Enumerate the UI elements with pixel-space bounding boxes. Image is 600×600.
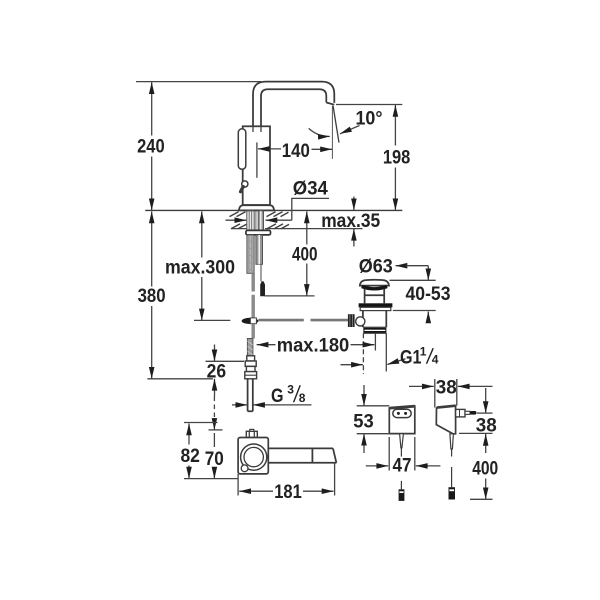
dim 53 bbox=[353, 385, 389, 453]
power supply side view bbox=[436, 406, 476, 434]
supply hose lower bbox=[251, 295, 254, 318]
dim max.35 bbox=[321, 197, 380, 247]
braided section above check valve bbox=[247, 339, 253, 357]
leader from 10 deg to stream bbox=[340, 126, 360, 134]
countertop line bbox=[145, 209, 402, 211]
G1 1/4 diameter arrows bbox=[341, 359, 406, 365]
check valve G3/8 bbox=[245, 356, 257, 379]
drain body bbox=[363, 311, 386, 328]
counter hatching left bbox=[230, 212, 247, 229]
dim 47 bbox=[366, 437, 441, 477]
svg-text:max.180: max.180 bbox=[277, 334, 350, 356]
braided shank below locknut bbox=[247, 235, 254, 273]
outlet pipe from wall box bbox=[268, 448, 336, 462]
counter slab bottom line bbox=[231, 228, 363, 230]
svg-text:47: 47 bbox=[393, 455, 412, 477]
svg-text:1: 1 bbox=[420, 345, 427, 359]
svg-text:Ø63: Ø63 bbox=[359, 256, 393, 278]
drain side inlet knob bbox=[356, 317, 365, 326]
dim 198 bbox=[336, 105, 410, 211]
inner tube below locknut bbox=[256, 235, 263, 264]
wire: top extension line of faucet height bbox=[136, 81, 261, 83]
counter hatching right bbox=[267, 212, 290, 229]
supply hose upper bbox=[251, 273, 254, 291]
svg-text:10°: 10° bbox=[356, 108, 383, 130]
dim 400 right bbox=[470, 434, 498, 499]
dim 70 dashed extension bbox=[213, 397, 215, 418]
wall box screw bbox=[241, 465, 248, 472]
cable connector plug bbox=[260, 281, 265, 296]
svg-text:181: 181 bbox=[274, 481, 302, 503]
drain union nut bbox=[364, 327, 386, 333]
side PSU cable bbox=[450, 434, 454, 449]
dim 40-53 bbox=[390, 266, 451, 320]
front PSU cable bbox=[400, 434, 404, 448]
dim 70 bbox=[205, 418, 224, 479]
svg-text:380: 380 bbox=[138, 285, 166, 307]
G3/8 diameter arrows bbox=[232, 404, 312, 406]
svg-text:140: 140 bbox=[282, 140, 310, 162]
spout inner tube bbox=[261, 89, 326, 127]
water stream 10 deg line bbox=[333, 106, 339, 143]
svg-text:400: 400 bbox=[472, 458, 498, 480]
svg-text:82: 82 bbox=[180, 445, 200, 467]
svg-text:4: 4 bbox=[432, 353, 439, 367]
svg-text:G: G bbox=[271, 385, 284, 407]
svg-text:Ø34: Ø34 bbox=[293, 177, 328, 199]
dia 34 label bbox=[226, 177, 330, 220]
side PSU connector bbox=[449, 487, 456, 499]
dim 181 bbox=[238, 463, 335, 503]
sensor window bbox=[238, 129, 246, 170]
drain thread extension lines bbox=[362, 333, 364, 374]
dim 400 under counter bbox=[265, 211, 318, 296]
svg-text:max.300: max.300 bbox=[165, 256, 235, 278]
front PSU connector bbox=[399, 489, 405, 501]
hose below junction bbox=[251, 324, 254, 339]
drain dome bbox=[360, 280, 389, 286]
base flange bbox=[239, 205, 274, 210]
svg-text:8: 8 bbox=[299, 391, 306, 405]
svg-text:40-53: 40-53 bbox=[406, 283, 451, 305]
water stream plumb line bbox=[331, 105, 333, 158]
dim 38 height right bbox=[459, 388, 497, 436]
wall box top fitting bbox=[246, 431, 257, 437]
wall box ring bbox=[241, 444, 267, 470]
dim 140 bbox=[257, 140, 332, 178]
dim 380 bbox=[138, 211, 213, 378]
lever handle bbox=[242, 181, 248, 187]
G3/8 label bbox=[271, 383, 306, 407]
drain flange lower band bbox=[360, 307, 391, 310]
sensor cable bbox=[260, 264, 262, 281]
drain gap black arc bbox=[362, 287, 387, 289]
svg-text:400: 400 bbox=[292, 243, 318, 265]
dim 26 bbox=[206, 345, 245, 397]
riser stubs inside body bbox=[253, 126, 261, 132]
svg-text:70: 70 bbox=[205, 448, 224, 470]
svg-text:26: 26 bbox=[207, 361, 227, 383]
drain neck bbox=[365, 289, 385, 303]
power supply front view bbox=[389, 406, 415, 433]
tee junction fitting bbox=[242, 318, 259, 324]
dim 38 width bbox=[409, 376, 493, 407]
horizontal supply pipe bbox=[258, 319, 303, 322]
drain center line below nut bbox=[374, 333, 376, 350]
svg-text:240: 240 bbox=[137, 135, 165, 157]
G1 1/4 label bbox=[400, 345, 439, 369]
svg-text:max.35: max.35 bbox=[321, 210, 380, 232]
faucet body bbox=[243, 126, 270, 205]
angle arc arrow bbox=[309, 128, 330, 136]
svg-text:38: 38 bbox=[436, 376, 457, 398]
svg-text:53: 53 bbox=[353, 411, 374, 433]
threaded shank through counter bbox=[247, 211, 264, 231]
svg-text:3: 3 bbox=[287, 383, 294, 397]
G3/8 nipple tube bbox=[248, 379, 253, 412]
spout outer tube bbox=[253, 82, 334, 127]
dim max.300 bbox=[165, 211, 235, 320]
dia 63 label bbox=[359, 256, 429, 278]
svg-text:198: 198 bbox=[383, 146, 411, 168]
dim 240 bbox=[137, 82, 165, 210]
spout outlet face bbox=[326, 103, 334, 105]
locknut under counter bbox=[246, 230, 271, 235]
svg-text:G1: G1 bbox=[400, 347, 422, 369]
drain flange black bar bbox=[359, 303, 393, 307]
dim max.180 bbox=[257, 334, 375, 356]
dim 82 bbox=[180, 423, 238, 479]
wall mounting box bbox=[238, 438, 268, 474]
